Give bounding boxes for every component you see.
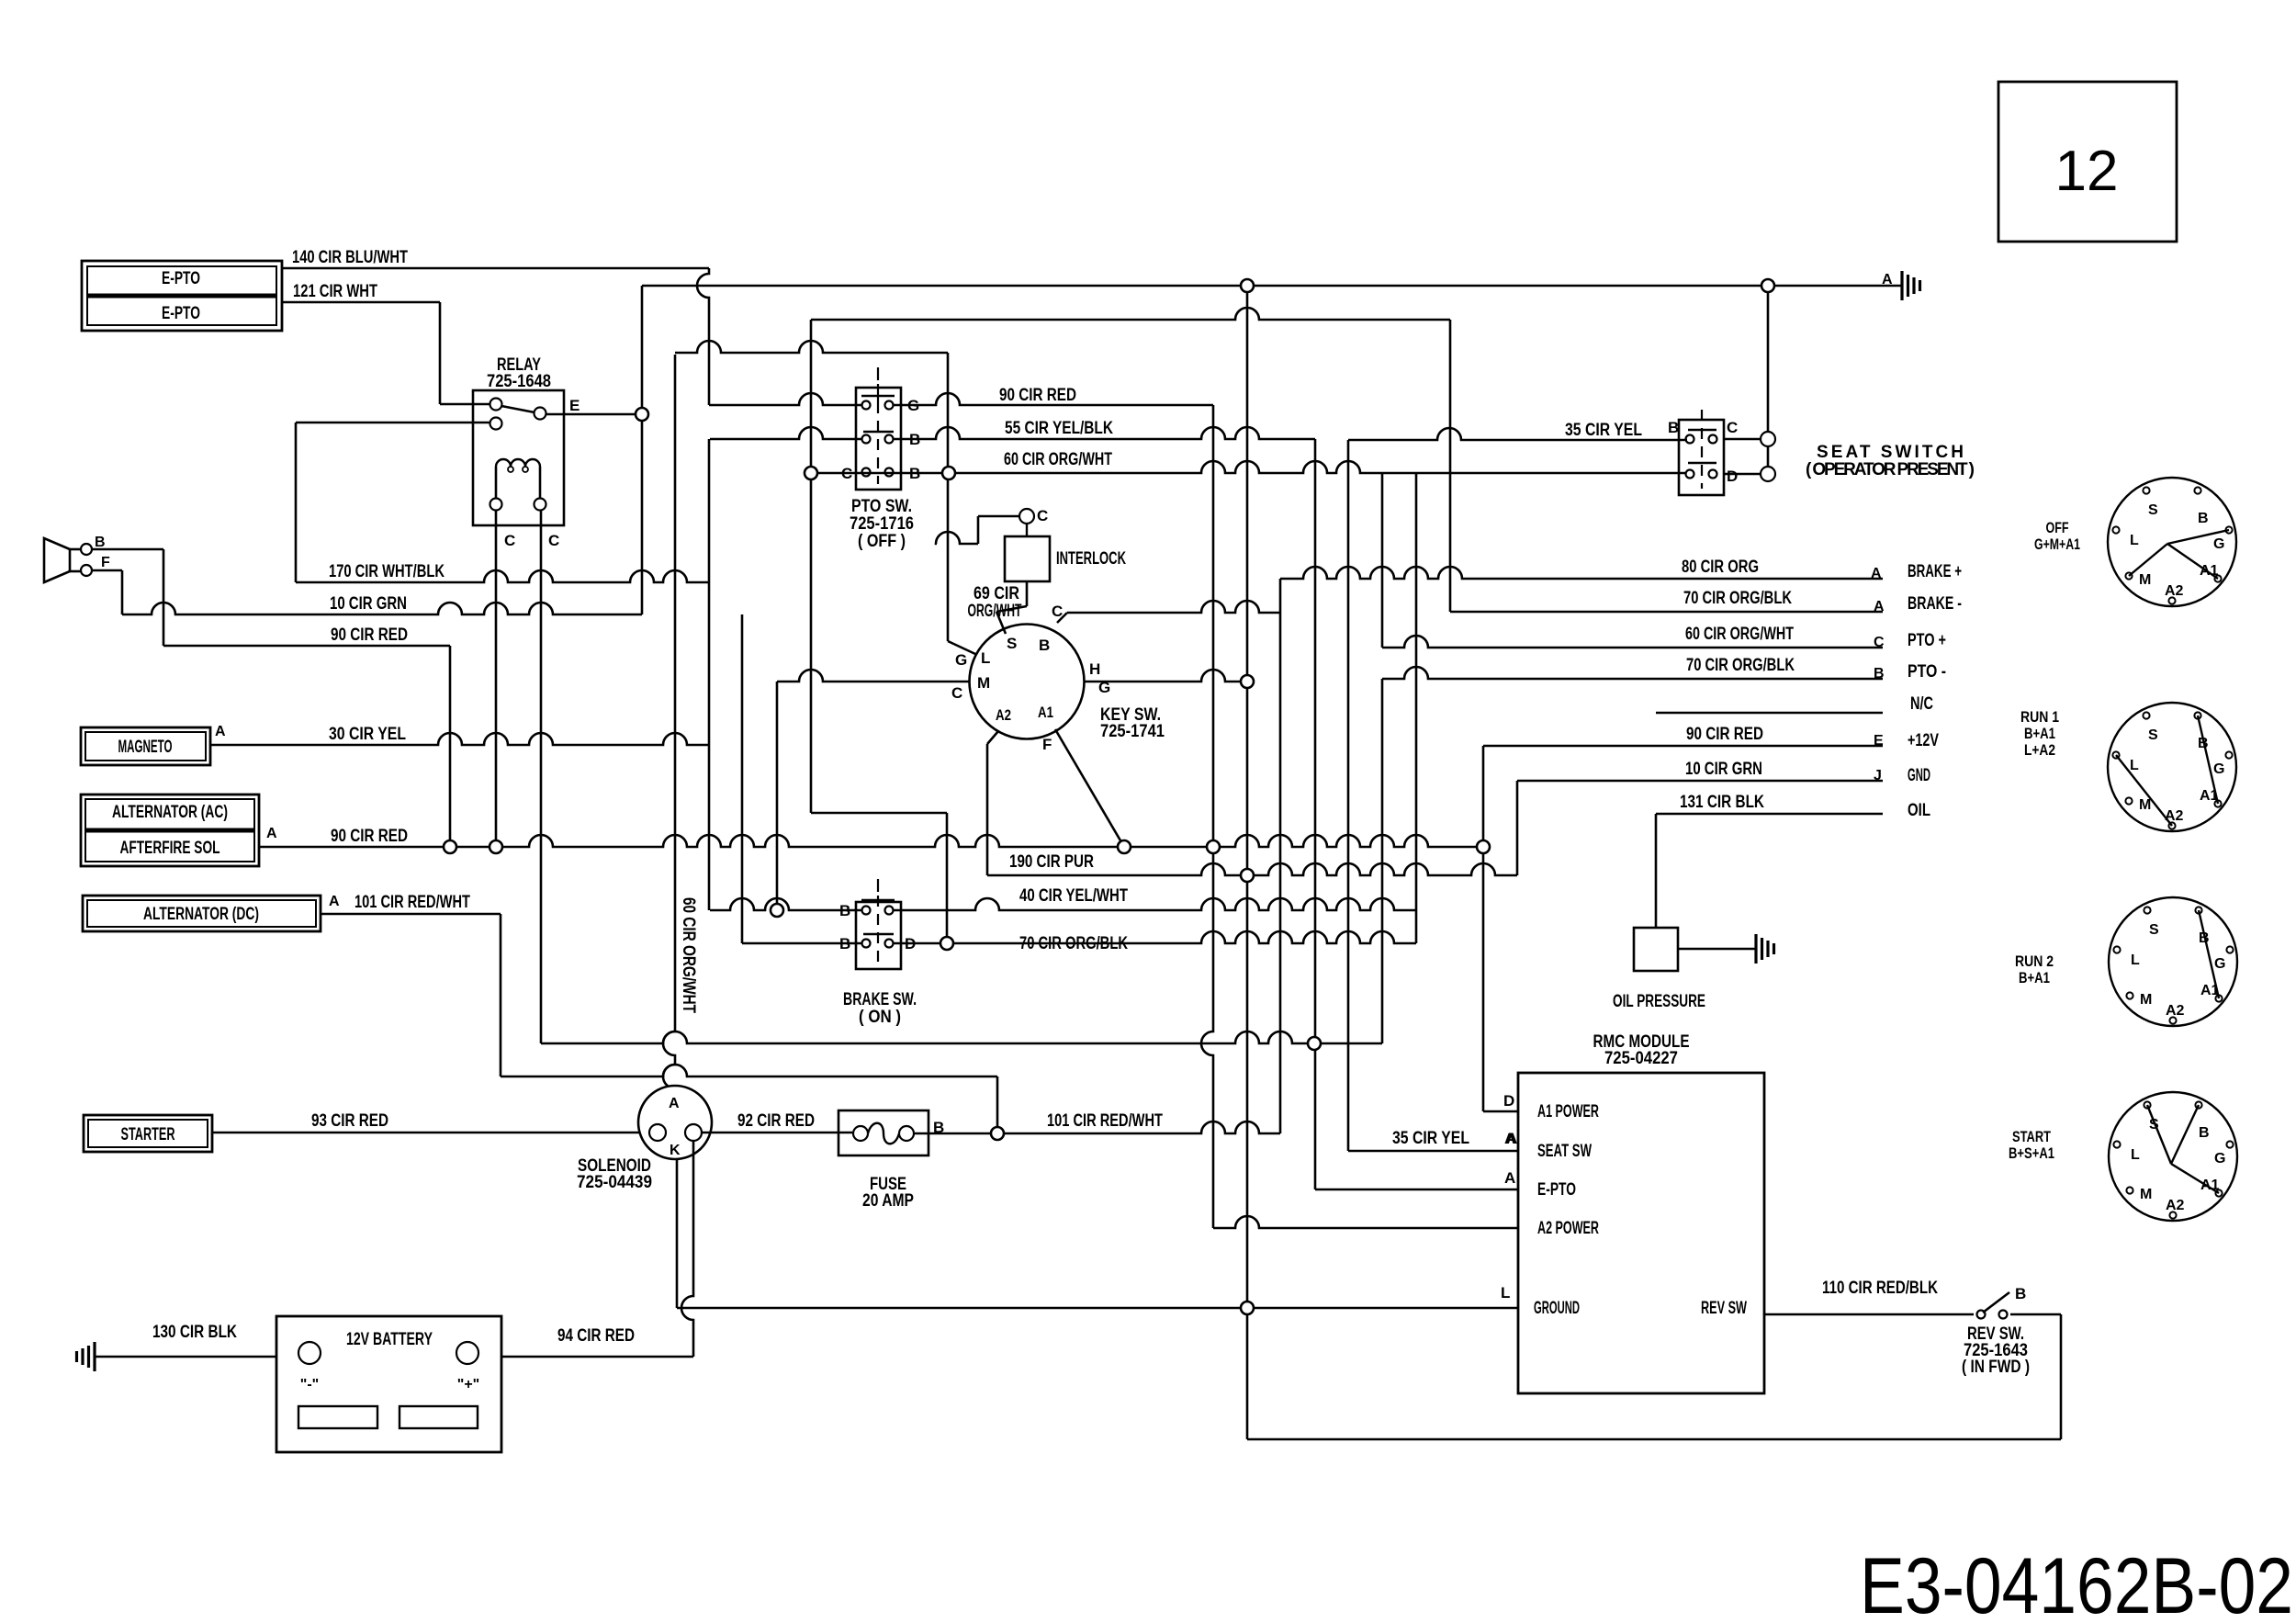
svg-text:A: A xyxy=(1506,1130,1517,1147)
svg-text:RUN 2: RUN 2 xyxy=(2015,952,2054,970)
oil pressure switch xyxy=(1613,928,1774,1011)
wire module L GROUND pin xyxy=(677,1307,1518,1310)
svg-text:B+A1: B+A1 xyxy=(2019,969,2050,986)
svg-text:35 CIR YEL: 35 CIR YEL xyxy=(1565,421,1642,440)
svg-text:B: B xyxy=(1668,419,1679,436)
wire 140 CIR BLU/WHT from E-PTO xyxy=(282,248,709,268)
seat switch box xyxy=(1668,410,1975,495)
sheet number box 12 xyxy=(1998,82,2177,242)
key position diagram RUN 2 xyxy=(2015,897,2237,1026)
svg-text:92 CIR RED: 92 CIR RED xyxy=(737,1111,815,1131)
wire brake switch D row left xyxy=(742,942,862,945)
svg-text:PTO SW.: PTO SW. xyxy=(851,497,912,516)
chassis ground symbol A (top right) xyxy=(1882,271,1920,300)
svg-text:131 CIR BLK: 131 CIR BLK xyxy=(1680,793,1764,812)
bus from PTO area to brake - terminal xyxy=(811,308,1450,320)
vertical 30 CIR YEL down to brake interlock bus xyxy=(708,439,711,910)
wire 92 CIR RED solenoid to fuse xyxy=(702,1111,852,1133)
svg-text:N/C: N/C xyxy=(1910,694,1933,714)
svg-text:L: L xyxy=(2131,1147,2140,1163)
svg-text:D: D xyxy=(1503,1092,1514,1110)
svg-text:130 CIR BLK: 130 CIR BLK xyxy=(152,1323,237,1342)
svg-text:A: A xyxy=(1874,599,1885,614)
svg-text:A: A xyxy=(1882,272,1893,287)
svg-text:70 CIR ORG/BLK: 70 CIR ORG/BLK xyxy=(1686,656,1795,675)
svg-text:E: E xyxy=(1874,733,1884,749)
svg-text:90 CIR RED: 90 CIR RED xyxy=(331,626,408,645)
wire relay coil pin C (right leg) down to module-feed bus xyxy=(540,511,543,1043)
svg-text:A: A xyxy=(266,826,277,841)
riser battery+ to key C and brake + xyxy=(1279,579,1282,1133)
wire horn B to 90 CIR RED label run xyxy=(92,548,163,551)
wire rev switch return loop xyxy=(2060,1314,2063,1439)
svg-text:12: 12 xyxy=(2055,140,2119,203)
wire relay pin 2 to 170 CIR WHT/BLK run xyxy=(296,422,490,424)
svg-text:725-04227: 725-04227 xyxy=(1604,1049,1678,1068)
starter connector (double box) xyxy=(84,1115,212,1152)
svg-text:PTO +: PTO + xyxy=(1908,631,1946,650)
svg-text:93 CIR RED: 93 CIR RED xyxy=(311,1111,388,1131)
connector ALTERNATOR (DC) (double box) xyxy=(83,894,340,931)
riser from magneto-kill bus to brake - xyxy=(1449,320,1452,612)
svg-text:94 CIR RED: 94 CIR RED xyxy=(557,1326,635,1346)
wire 60 CIR ORG/WHT (PTO +) xyxy=(1382,625,1946,650)
wire 94 CIR RED battery positive xyxy=(501,1326,693,1357)
svg-text:E-PTO: E-PTO xyxy=(162,304,200,323)
svg-text:M: M xyxy=(2139,797,2151,813)
svg-text:G: G xyxy=(2214,956,2225,972)
svg-text:D: D xyxy=(1727,468,1738,485)
connector ALTERNATOR (AC) / AFTERFIRE SOL (double box, two rows) xyxy=(81,795,277,866)
key switch 725-1741 xyxy=(951,603,1165,753)
svg-text:30 CIR YEL: 30 CIR YEL xyxy=(329,725,406,744)
svg-text:C: C xyxy=(504,532,515,549)
svg-text:B: B xyxy=(1874,666,1885,682)
wire 35 CIR YEL to seat switch B xyxy=(1348,421,1687,440)
svg-text:( OPERATOR PRESENT ): ( OPERATOR PRESENT ) xyxy=(1806,460,1975,479)
svg-text:A2: A2 xyxy=(2166,1198,2185,1213)
svg-text:STARTER: STARTER xyxy=(121,1125,175,1144)
wire seat switch C to ground riser xyxy=(1724,438,1761,441)
svg-text:B+A1: B+A1 xyxy=(2024,725,2055,742)
svg-text:E3-04162B-02: E3-04162B-02 xyxy=(1860,1542,2293,1623)
wire 80 CIR ORG (BRAKE +) xyxy=(1280,558,1962,581)
svg-text:( IN FWD ): ( IN FWD ) xyxy=(1962,1358,2030,1377)
wire segment: vertical from 140 CIR BLU/WHT down to PTO switch G (hops top bus) xyxy=(697,268,709,405)
svg-text:110 CIR RED/BLK: 110 CIR RED/BLK xyxy=(1822,1279,1938,1298)
svg-text:C: C xyxy=(1874,635,1885,650)
wire interlock C jog to key G riser xyxy=(978,515,1019,518)
relay 725-1648 xyxy=(473,355,580,549)
svg-text:G: G xyxy=(2214,1151,2225,1167)
wire module REV SW pin / 110 CIR RED/BLK xyxy=(1764,1279,1974,1314)
svg-text:90 CIR RED: 90 CIR RED xyxy=(331,827,408,846)
svg-text:190 CIR PUR: 190 CIR PUR xyxy=(1009,852,1094,872)
bus from alternator DC to fuse output junction xyxy=(501,1065,997,1076)
svg-text:L: L xyxy=(1501,1284,1510,1302)
wire 60 CIR ORG/WHT vertical to solenoid A xyxy=(663,355,675,1088)
svg-text:80 CIR ORG: 80 CIR ORG xyxy=(1682,558,1759,577)
wire key F diagonal to 190 CIR PUR junction xyxy=(1055,729,1124,847)
wire PTO B row left xyxy=(710,427,862,439)
interlock connector xyxy=(1005,507,1126,581)
wire 70 CIR ORG/BLK (BRAKE -) xyxy=(1450,589,1962,614)
svg-text:K: K xyxy=(670,1143,681,1158)
wire module A E-PTO pin xyxy=(1315,1189,1518,1191)
svg-text:69 CIR: 69 CIR xyxy=(974,584,1019,603)
svg-text:60 CIR ORG/WHT: 60 CIR ORG/WHT xyxy=(1685,625,1794,644)
svg-text:A1 POWER: A1 POWER xyxy=(1537,1102,1599,1121)
svg-text:GROUND: GROUND xyxy=(1534,1299,1580,1318)
svg-text:55 CIR YEL/BLK: 55 CIR YEL/BLK xyxy=(1005,419,1113,438)
svg-text:20 AMP: 20 AMP xyxy=(862,1191,914,1211)
solenoid 725-04439 xyxy=(577,1086,712,1192)
svg-text:90 CIR RED: 90 CIR RED xyxy=(999,386,1076,405)
wire interlock bottom (69 CIR ORG/WHT) to key switch S xyxy=(968,581,1028,634)
svg-text:BRAKE SW.: BRAKE SW. xyxy=(843,990,917,1009)
horn xyxy=(44,535,110,582)
svg-text:S: S xyxy=(1007,635,1017,652)
rev switch 725-1643 xyxy=(1962,1285,2061,1377)
wire 93 CIR RED starter to solenoid xyxy=(212,1111,648,1133)
coil feed bus (relay C to PTO-) xyxy=(541,1031,1382,1043)
svg-text:G: G xyxy=(2213,536,2224,552)
wire key H to ground net vertical xyxy=(1084,670,1247,682)
wire key G diagonal from PTO G riser xyxy=(947,353,950,641)
svg-text:121 CIR WHT: 121 CIR WHT xyxy=(293,282,377,301)
svg-text:725-04439: 725-04439 xyxy=(577,1173,652,1192)
svg-text:L+A2: L+A2 xyxy=(2024,741,2055,759)
wire PTO G row left (from E-PTO feed) xyxy=(709,393,862,405)
svg-text:E-PTO: E-PTO xyxy=(162,269,200,288)
wire N/C xyxy=(1656,694,1933,714)
svg-text:M: M xyxy=(977,674,990,692)
svg-text:B: B xyxy=(95,535,106,550)
svg-text:B: B xyxy=(2199,1125,2210,1141)
svg-text:SEAT SWITCH: SEAT SWITCH xyxy=(1817,443,1964,462)
riser 55 CIR YEL/BLK to E-PTO pin xyxy=(1314,439,1317,1189)
svg-text:SEAT SW: SEAT SW xyxy=(1537,1142,1592,1161)
svg-text:L: L xyxy=(2130,533,2139,548)
svg-text:A2 POWER: A2 POWER xyxy=(1537,1219,1599,1238)
wire seat switch D to ground riser xyxy=(1724,473,1761,476)
svg-text:B: B xyxy=(1039,637,1050,654)
riser 10 CIR GRN to brake D row xyxy=(741,614,744,943)
wire 10 CIR GRN (left run) xyxy=(122,594,642,614)
wire 90 CIR RED / 190 CIR PUR main bus xyxy=(259,827,1483,872)
svg-text:M: M xyxy=(2140,1187,2152,1202)
svg-text:70 CIR ORG/BLK: 70 CIR ORG/BLK xyxy=(1019,934,1128,953)
wire 70 CIR ORG/BLK (PTO -) xyxy=(1382,656,1946,682)
svg-text:725-1741: 725-1741 xyxy=(1100,722,1165,741)
wire 170 CIR WHT/BLK xyxy=(296,562,709,582)
svg-text:E-PTO: E-PTO xyxy=(1537,1180,1576,1200)
svg-text:A: A xyxy=(669,1096,680,1111)
svg-text:60 CIR ORG/WHT: 60 CIR ORG/WHT xyxy=(679,897,698,1013)
svg-text:RUN 1: RUN 1 xyxy=(2020,708,2059,726)
wire 90 CIR RED (+12V E) xyxy=(1483,725,1939,750)
wire 60 CIR ORG/WHT row (PTO C) / seat switch D run xyxy=(814,450,1687,473)
svg-text:"-": "-" xyxy=(300,1377,320,1392)
svg-text:H: H xyxy=(1089,660,1100,678)
svg-text:35 CIR YEL: 35 CIR YEL xyxy=(1392,1129,1469,1148)
svg-text:40 CIR YEL/WHT: 40 CIR YEL/WHT xyxy=(1019,886,1128,906)
svg-text:( ON ): ( ON ) xyxy=(859,1008,901,1027)
svg-text:A: A xyxy=(215,724,226,739)
connector E-PTO (double box, two rows) xyxy=(82,261,282,331)
brake switch box (ON) xyxy=(839,879,917,1027)
svg-text:B: B xyxy=(2198,511,2209,526)
svg-text:ALTERNATOR (DC): ALTERNATOR (DC) xyxy=(143,905,259,924)
riser 35 CIR YEL to SEAT SW pin xyxy=(1347,440,1350,1151)
svg-text:C: C xyxy=(951,684,962,702)
svg-text:70 CIR ORG/BLK: 70 CIR ORG/BLK xyxy=(1683,589,1792,608)
battery 12V xyxy=(276,1316,501,1452)
svg-text:10 CIR GRN: 10 CIR GRN xyxy=(330,594,407,614)
svg-text:REV SW: REV SW xyxy=(1701,1299,1747,1318)
svg-text:140 CIR BLU/WHT: 140 CIR BLU/WHT xyxy=(292,248,408,267)
svg-text:C: C xyxy=(1037,507,1048,524)
top bus wire to chassis ground (net of 10 CIR GRN) xyxy=(642,285,1901,287)
svg-text:M: M xyxy=(2140,992,2152,1008)
svg-text:A1: A1 xyxy=(1038,704,1053,721)
svg-text:BRAKE -: BRAKE - xyxy=(1908,594,1962,614)
svg-text:170 CIR WHT/BLK: 170 CIR WHT/BLK xyxy=(329,562,445,581)
svg-text:101 CIR RED/WHT: 101 CIR RED/WHT xyxy=(355,893,470,912)
svg-text:ORG/WHT: ORG/WHT xyxy=(968,602,1022,621)
svg-text:A: A xyxy=(1871,566,1882,581)
wire module D A1 POWER pin xyxy=(1483,1110,1518,1113)
svg-text:725-1716: 725-1716 xyxy=(850,514,914,534)
svg-text:G: G xyxy=(2213,761,2224,777)
wire 90 CIR RED (horn feed) xyxy=(163,626,450,847)
svg-text:START: START xyxy=(2012,1128,2051,1145)
wire module A2 POWER pin xyxy=(1213,1216,1518,1228)
svg-text:OFF: OFF xyxy=(2046,519,2069,536)
riser PTO - to coil bus xyxy=(1381,679,1384,1043)
riser seat D to brake rows xyxy=(1415,473,1418,943)
svg-text:M: M xyxy=(2139,572,2151,588)
svg-text:A: A xyxy=(329,894,340,909)
svg-text:F: F xyxy=(1042,736,1052,753)
svg-text:INTERLOCK: INTERLOCK xyxy=(1056,549,1126,569)
key position diagram OFF xyxy=(2034,478,2236,606)
svg-text:S: S xyxy=(2148,727,2158,743)
ground bus 10 CIR GRN middle run (A2 / key H / module A2 net) xyxy=(987,863,1517,875)
svg-text:B+S+A1: B+S+A1 xyxy=(2009,1144,2054,1162)
svg-text:+12V: +12V xyxy=(1908,731,1939,750)
svg-text:( OFF ): ( OFF ) xyxy=(858,532,906,551)
svg-text:A2: A2 xyxy=(996,706,1011,724)
wire 70 CIR ORG/BLK from brake switch xyxy=(893,931,1416,953)
wire solenoid case to module ground xyxy=(676,1159,679,1308)
connector MAGNETO (double box) xyxy=(81,724,226,765)
jog wire linking riser to brake switch 70 CIR ORG/BLK row xyxy=(811,812,947,815)
svg-text:90 CIR RED: 90 CIR RED xyxy=(1686,725,1763,744)
svg-text:"+": "+" xyxy=(457,1377,480,1392)
wire 30 CIR YEL from magneto xyxy=(210,725,709,745)
wire from 60 CIR ORG/WHT top across to key switch G riser xyxy=(675,341,948,353)
ground riser from top bus to seat switch xyxy=(1767,286,1770,474)
vertical ground net wire (10 CIR GRN riser) xyxy=(641,286,644,614)
wire 90 CIR RED from PTO switch G xyxy=(893,386,1213,405)
svg-text:PTO -: PTO - xyxy=(1908,662,1946,682)
svg-text:A2: A2 xyxy=(2166,1003,2185,1019)
wire 55 CIR YEL/BLK from PTO switch B xyxy=(893,419,1315,439)
riser +12V to module A1 POWER D pin xyxy=(1482,746,1485,1111)
RMC module 725-04227 xyxy=(1501,1032,1764,1393)
riser seat D / 190 PUR / A2 POWER xyxy=(1201,405,1213,1228)
svg-text:ALTERNATOR (AC): ALTERNATOR (AC) xyxy=(112,803,228,822)
svg-text:MAGNETO: MAGNETO xyxy=(118,738,173,757)
svg-text:OIL PRESSURE: OIL PRESSURE xyxy=(1613,992,1705,1011)
svg-text:C: C xyxy=(548,532,559,549)
PTO switch 725-1716 box xyxy=(841,367,920,551)
svg-text:G: G xyxy=(955,651,967,669)
ground net main vertical xyxy=(1246,286,1249,1439)
wire horn F to 10 CIR GRN run xyxy=(92,569,122,572)
wire 121 CIR WHT from E-PTO xyxy=(282,282,440,404)
wire 101 CIR RED/WHT from alternator DC xyxy=(321,893,501,1076)
svg-text:BRAKE +: BRAKE + xyxy=(1908,562,1962,581)
svg-text:L: L xyxy=(981,649,990,667)
wire 121 CIR WHT into relay contact xyxy=(440,403,490,406)
wire 40 CIR YEL/WHT from brake switch xyxy=(893,886,1416,910)
wire 130 CIR BLK battery negative to ground xyxy=(77,1323,277,1371)
svg-text:B: B xyxy=(2015,1285,2026,1302)
svg-text:AFTERFIRE SOL: AFTERFIRE SOL xyxy=(120,839,220,858)
wire key C diagonal to battery + riser xyxy=(1057,613,1067,623)
svg-text:F: F xyxy=(101,555,110,570)
svg-text:10 CIR GRN: 10 CIR GRN xyxy=(1685,760,1762,779)
svg-text:725-1648: 725-1648 xyxy=(487,372,551,391)
riser 60 CIR ORG/WHT row to PTO + xyxy=(1381,473,1384,648)
svg-text:60 CIR ORG/WHT: 60 CIR ORG/WHT xyxy=(1004,450,1112,469)
svg-text:101 CIR RED/WHT: 101 CIR RED/WHT xyxy=(1047,1111,1163,1131)
svg-text:E: E xyxy=(569,397,580,414)
svg-text:J: J xyxy=(1874,768,1882,783)
svg-text:S: S xyxy=(2149,922,2159,938)
wire 94 CIR RED riser to solenoid xyxy=(681,1142,693,1357)
key position diagram START xyxy=(2009,1092,2237,1221)
svg-text:S: S xyxy=(2148,502,2158,518)
svg-text:G+M+A1: G+M+A1 xyxy=(2034,535,2080,553)
wire 10 CIR GRN to module J GND pin xyxy=(1517,760,1930,875)
svg-text:C: C xyxy=(1727,419,1738,436)
svg-text:L: L xyxy=(2131,952,2140,968)
svg-text:A2: A2 xyxy=(2165,583,2184,599)
wire key A2 to ground bus xyxy=(987,731,998,744)
key position diagram RUN 1 xyxy=(2020,703,2236,831)
riser from magneto-kill bus through PTO C junction xyxy=(810,320,813,813)
wire relay E output to junction on ground vertical xyxy=(546,413,642,416)
svg-text:OIL: OIL xyxy=(1908,801,1930,820)
wire 101 CIR RED/WHT fuse to key C riser xyxy=(914,1111,1280,1133)
svg-text:GND: GND xyxy=(1908,766,1930,785)
wire module A SEAT SW pin (35 CIR YEL) xyxy=(1348,1129,1518,1151)
svg-text:L: L xyxy=(2130,758,2139,773)
wire key M to brake interlock riser xyxy=(777,670,970,682)
svg-text:12V BATTERY: 12V BATTERY xyxy=(346,1330,433,1349)
svg-text:A: A xyxy=(1504,1169,1515,1187)
wire relay coil pin C (left leg) down to 90 CIR RED bus xyxy=(495,511,498,847)
fuse 20 AMP xyxy=(838,1110,944,1211)
wire brake switch B row left (30 CIR YEL interlock bus) xyxy=(710,898,862,910)
wire 131 CIR BLK (OIL) xyxy=(1656,793,1930,928)
